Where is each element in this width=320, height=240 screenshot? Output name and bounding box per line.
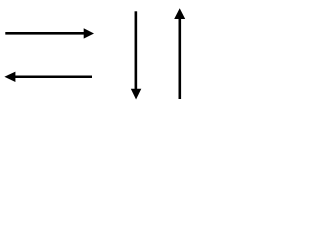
arrow right (top-left, pointing right) [5, 28, 94, 38]
arrow down (middle-right, pointing down) [131, 11, 142, 99]
arrow up (far-right, pointing up) [174, 8, 185, 99]
arrow left (lower-left, pointing left) [4, 72, 92, 82]
